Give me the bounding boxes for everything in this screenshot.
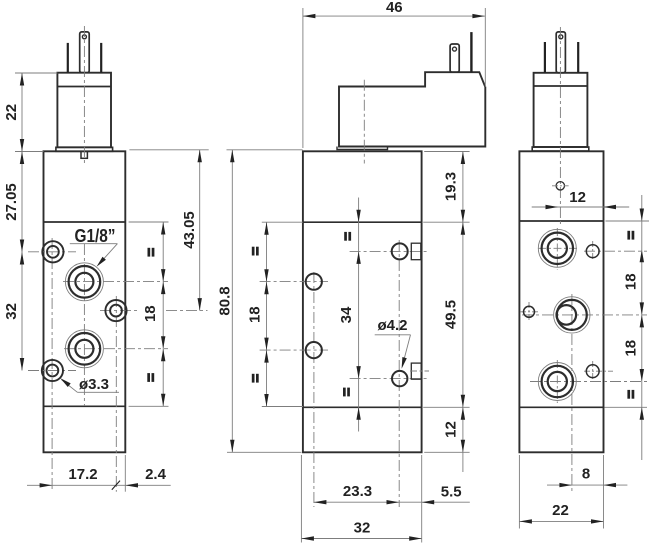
dimension 22 extension bottom xyxy=(15,151,44,153)
left view: hole column centerline right xyxy=(115,296,117,492)
left view: coil mounting plate xyxy=(56,147,113,151)
left view: centerline vertical upper xyxy=(83,26,85,166)
dimension column =/18/= middle view left xyxy=(266,222,268,406)
middle view: left hole column centerline xyxy=(313,272,315,507)
right view: top hole crosshair xyxy=(552,185,569,187)
svg-text:19.3: 19.3 xyxy=(442,172,459,201)
extension line y221 right xyxy=(606,220,649,222)
extension line y407.3 far right xyxy=(605,406,648,408)
right view: coil cap line xyxy=(534,85,588,87)
dimension 43.05 line xyxy=(199,150,201,311)
extension line x603.5 down xyxy=(603,455,605,529)
extension line x421.7 down xyxy=(421,455,423,543)
svg-text:23.3: 23.3 xyxy=(343,483,372,500)
left view: solenoid coil body xyxy=(57,73,111,148)
left view: manual override tab xyxy=(81,151,87,158)
left view: valve body outline xyxy=(44,151,126,452)
left view: hole row centerline y281.6 xyxy=(63,281,168,283)
dimension column =/18/= left view xyxy=(162,222,164,406)
middle view: tab at right hole upper xyxy=(411,243,421,260)
extension line y222.2 right of middle view xyxy=(423,221,469,223)
left view: body section line lower xyxy=(44,405,126,407)
dimension text = right lower xyxy=(627,390,630,399)
extension line x301.4 down xyxy=(300,455,302,543)
middle view: right hole upper dia4.2 xyxy=(392,243,408,259)
middle view: hole row y251 xyxy=(350,250,429,252)
leader line for dia 3.3 xyxy=(77,391,119,393)
extension line y149.8 segment A xyxy=(129,149,208,151)
dimension 5.5 arrow xyxy=(422,500,435,504)
dimension line 23.3 / 5.5 xyxy=(314,501,470,503)
middle view: hole row y377.5 xyxy=(350,378,429,380)
svg-text:22: 22 xyxy=(3,104,20,121)
right view: hole row y248.3 xyxy=(538,247,579,249)
left view: hole row centerline y348.7 xyxy=(64,348,168,350)
dimension 32 arrow bottom xyxy=(20,358,24,371)
dimension line 17.2 / 2.4 xyxy=(27,484,171,486)
leader line for dia 4.2 xyxy=(375,334,411,336)
oblique tick at 17.2/2.4 boundary xyxy=(112,481,120,490)
dimension 2.4 arrow xyxy=(126,483,139,487)
left view: connector earth pin xyxy=(80,32,90,73)
svg-text:18: 18 xyxy=(247,306,264,323)
right view: solenoid coil body xyxy=(534,73,588,147)
dimension 8 line xyxy=(547,484,627,486)
left view: connector pin right xyxy=(100,43,102,73)
extension line y149.8 segment B xyxy=(227,149,303,151)
dimension 46 extension right xyxy=(484,8,486,87)
middle view: earth pin side xyxy=(450,44,459,72)
right view: hole row y251.2 long xyxy=(584,250,647,252)
right view: small hole r1 crosshair vertical xyxy=(592,241,594,261)
left view: hole row centerline y310.6 xyxy=(100,310,140,312)
middle view: coil bottom plate xyxy=(337,147,388,150)
right view: top hole xyxy=(556,182,564,190)
right view: centerline vertical xyxy=(559,27,561,225)
svg-text:8: 8 xyxy=(582,465,590,482)
middle view: centerline vertical xyxy=(363,80,365,164)
right view: small hole r3 crosshair xyxy=(584,370,613,372)
dimension 22 line right view xyxy=(519,520,603,522)
middle view: body section line upper xyxy=(303,221,422,223)
svg-text:18: 18 xyxy=(142,305,159,322)
right view: small hole left xyxy=(524,306,535,317)
middle view: tab lower centerline xyxy=(410,370,429,372)
extension line y452.3 left of middle view xyxy=(227,451,301,453)
right view: port hole top xyxy=(538,229,576,267)
dimension 22 arrow top xyxy=(20,73,24,86)
middle view: earth pin hole xyxy=(453,47,457,51)
left view: earth pin hole xyxy=(82,35,86,39)
dimension 22 extension top xyxy=(15,72,57,74)
svg-text:27.05: 27.05 xyxy=(3,183,20,221)
dimension column 19.3/49.5/12 xyxy=(462,152,464,473)
extension line y151.5 right of middle view xyxy=(424,151,469,153)
middle view: hole row y350 xyxy=(260,349,328,351)
middle view: coil side profile xyxy=(339,72,485,146)
svg-text:5.5: 5.5 xyxy=(441,483,462,500)
right view: hole row y314.9 xyxy=(522,314,647,316)
right view: connector earth pin xyxy=(556,32,565,73)
left view: small hole middle-right xyxy=(105,300,126,321)
right view: valve body outline xyxy=(519,151,603,452)
left view: small hole bottom-left dia 3.3 xyxy=(42,360,63,381)
middle view: hole row y282 xyxy=(260,281,328,283)
svg-text:12: 12 xyxy=(442,421,459,438)
dimension 32 line xyxy=(301,538,421,540)
svg-text:43.05: 43.05 xyxy=(181,211,198,249)
svg-text:22: 22 xyxy=(552,502,569,519)
left view: port G1/8 lower xyxy=(65,330,103,368)
left view: hole row centerline y252 xyxy=(28,251,76,253)
middle view: valve body outline xyxy=(303,151,422,452)
svg-text:2.4: 2.4 xyxy=(145,466,167,483)
right view: lower centerline x571.9 xyxy=(571,294,573,492)
dimension 22 arrow bottom xyxy=(20,139,24,152)
extension line x519.4 down xyxy=(518,455,520,529)
middle view: flat pin side xyxy=(470,32,472,72)
left view: body section line upper xyxy=(44,221,126,223)
right view: connector pin left xyxy=(544,42,546,73)
middle view: left pilot hole upper xyxy=(306,274,322,290)
dimension 17.2 arrow left xyxy=(40,483,53,487)
right view: earth pin hole xyxy=(559,35,563,39)
svg-text:80.8: 80.8 xyxy=(216,286,233,315)
svg-text:32: 32 xyxy=(3,303,20,320)
dimension column =/18/18/= right view xyxy=(641,195,643,460)
extension line body corner down xyxy=(124,455,126,492)
dimension text = inner upper xyxy=(344,232,347,241)
left view: centerline vertical through ports xyxy=(83,244,85,406)
dimension 32 arrow top xyxy=(20,252,24,265)
right view: coil mounting plate xyxy=(532,147,589,151)
right view: small hole left crosshair xyxy=(520,311,538,313)
svg-text:G1/8”: G1/8” xyxy=(75,226,116,246)
middle view: right hole column centerline xyxy=(398,240,400,507)
extension line y406 right xyxy=(129,405,169,407)
extension line y222 right xyxy=(129,221,169,223)
dimension 46 extension left xyxy=(302,8,304,148)
svg-text:46: 46 xyxy=(386,0,403,16)
dimension text = upper xyxy=(148,248,151,257)
dimension text = lower xyxy=(147,373,150,382)
dimension 27.05 arrow bottom xyxy=(20,240,24,253)
right view: port top crosshair vertical xyxy=(556,228,558,270)
left view: hole row centerline y370.5 xyxy=(28,370,76,372)
right view: connector pin right xyxy=(577,42,579,73)
dimension text = inner lower xyxy=(343,388,346,397)
middle view: body section line lower xyxy=(303,406,422,408)
left view: port G1/8 upper xyxy=(65,263,103,301)
right view: body section line upper xyxy=(519,220,603,222)
svg-text:18: 18 xyxy=(622,273,639,290)
dimension column left line xyxy=(21,73,23,371)
left view: small hole top-left xyxy=(42,241,63,262)
right view: port hole bottom xyxy=(538,363,576,401)
dimension column =/34/= middle view inner xyxy=(358,198,360,432)
middle view: left pilot hole lower xyxy=(306,342,322,358)
extension line y406.3 left of middle view xyxy=(262,406,303,408)
svg-text:12: 12 xyxy=(569,189,586,206)
svg-text:49.5: 49.5 xyxy=(442,300,459,329)
svg-text:18: 18 xyxy=(622,340,639,357)
svg-text:17.2: 17.2 xyxy=(68,466,97,483)
right view: small hole right bottom xyxy=(586,365,599,378)
right view: body section line lower xyxy=(519,406,603,408)
dimension text = mid-left lower xyxy=(252,374,255,383)
svg-text:ø3.3: ø3.3 xyxy=(79,376,109,393)
dimension 80.8 line xyxy=(231,150,233,453)
right view: port hole middle xyxy=(554,297,590,333)
dimension text = mid-left upper xyxy=(252,247,255,256)
extension line y407.3 right of middle view xyxy=(423,406,469,408)
leader line for G1/8 xyxy=(70,243,118,245)
svg-text:ø4.2: ø4.2 xyxy=(377,317,407,334)
dimension text = right upper xyxy=(627,231,630,240)
left view: hole column centerline left xyxy=(51,238,53,492)
middle view: right hole lower dia4.2 xyxy=(392,371,407,386)
svg-text:34: 34 xyxy=(338,306,355,323)
extension line y222 left of middle view xyxy=(262,221,303,223)
extension line y452.3 right of middle view xyxy=(424,451,469,453)
left view: connector pin left xyxy=(67,43,69,73)
right view: port bottom crosshair vertical xyxy=(556,360,558,403)
right view: small hole right top xyxy=(586,245,599,258)
dimension 27.05 arrow top xyxy=(20,152,24,165)
right view: hole row y381.5 xyxy=(530,381,647,383)
svg-text:32: 32 xyxy=(354,519,371,536)
middle view: tab at right hole lower xyxy=(411,363,421,379)
dimension 46 line xyxy=(303,15,485,17)
left view: coil cap line xyxy=(57,86,111,88)
dimension 12 line right view xyxy=(532,206,630,208)
